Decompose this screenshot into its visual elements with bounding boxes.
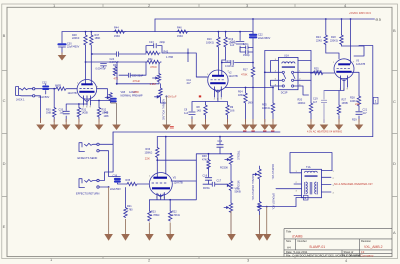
label R43 bbox=[164, 51, 173, 60]
resistor R43 bbox=[146, 51, 160, 54]
junction R05 bbox=[272, 87, 274, 89]
transformer T1A left pins bbox=[276, 173, 302, 196]
junction R17 bottom bbox=[252, 87, 254, 89]
label C11 bbox=[187, 79, 192, 85]
svg-text:12AX7B: 12AX7B bbox=[356, 63, 366, 66]
label C30 bbox=[67, 43, 80, 49]
capacitor C9 bbox=[189, 112, 195, 115]
label R23 bbox=[151, 211, 160, 217]
potentiometer RV1 bbox=[157, 74, 160, 83]
send sleeve contact circle bbox=[97, 150, 99, 152]
svg-text:1780: 1780 bbox=[127, 208, 133, 211]
svg-text:12AX7B: 12AX7B bbox=[174, 181, 184, 184]
wire C14 column bbox=[196, 137, 231, 161]
svg-text:R46: R46 bbox=[177, 27, 182, 30]
resistor R27 bbox=[337, 105, 340, 115]
wire C17 row bbox=[203, 183, 227, 185]
svg-text:A4: A4 bbox=[287, 246, 291, 250]
transformer T1A right pins bbox=[322, 171, 333, 193]
svg-text:1M8: 1M8 bbox=[104, 115, 109, 118]
tube V2 envelope bbox=[208, 70, 228, 90]
relay U1A body bbox=[278, 58, 298, 90]
resistor R23 bbox=[148, 211, 151, 221]
label V1 tube bbox=[68, 92, 78, 95]
svg-text:Revision: Revision bbox=[361, 239, 372, 243]
wire V5b plate riser bbox=[165, 137, 167, 174]
svg-text:18K0: 18K0 bbox=[238, 94, 244, 97]
zone numbers top bbox=[53, 3, 347, 8]
svg-text:1K6: 1K6 bbox=[230, 109, 235, 112]
resistor R30 bbox=[53, 108, 56, 123]
svg-text:TREBLE: TREBLE bbox=[237, 151, 240, 161]
wire treble ground drop bbox=[230, 211, 232, 234]
resistor R44 series on rail bbox=[113, 30, 126, 33]
label R05 bbox=[262, 104, 270, 110]
wire pot to ground bbox=[111, 103, 117, 125]
zone ticks left bbox=[2, 71, 7, 197]
label C33 bbox=[59, 109, 65, 115]
resistor R19 plate load V2b bbox=[222, 32, 228, 76]
ground under R8 bbox=[201, 119, 210, 130]
svg-text:C16: C16 bbox=[203, 175, 208, 178]
wire V2 grid from network bbox=[196, 76, 207, 78]
svg-text:22uF/450V: 22uF/450V bbox=[67, 46, 80, 49]
capacitor C26 small bbox=[101, 64, 107, 68]
svg-text:R44: R44 bbox=[114, 27, 119, 30]
wire jack tip to C32 bbox=[35, 88, 43, 90]
wire relay pin left coil bbox=[271, 61, 279, 73]
transformer core lines bbox=[310, 182, 312, 194]
resistor R18 bbox=[340, 35, 343, 46]
relay contact circles left bbox=[282, 71, 284, 73]
svg-text:1: 1 bbox=[375, 99, 377, 103]
label R38 bbox=[202, 155, 208, 161]
svg-text:1uF: 1uF bbox=[184, 112, 189, 115]
tube V3 pin numbers bbox=[333, 62, 355, 91]
svg-text:120KΩ: 120KΩ bbox=[314, 70, 322, 73]
junction rail R10 bbox=[218, 31, 220, 33]
ground arrow master bbox=[255, 234, 264, 241]
resistor R8 bbox=[204, 105, 207, 122]
svg-text:NORMAL MASTER VOL: NORMAL MASTER VOL bbox=[251, 174, 254, 201]
svg-text:D: D bbox=[393, 161, 396, 166]
zone ticks bottom bbox=[103, 257, 295, 259]
transformer T1A outer wires bbox=[276, 153, 332, 196]
label R32 bbox=[102, 109, 109, 115]
svg-text:22uF: 22uF bbox=[138, 75, 144, 78]
label R40 bbox=[104, 112, 109, 118]
svg-text:1M0: 1M0 bbox=[248, 102, 253, 105]
send tip contact circle bbox=[97, 143, 99, 145]
resistor R32 bbox=[97, 108, 100, 123]
label R33 bbox=[145, 148, 153, 154]
wire R22 column bbox=[169, 200, 171, 211]
effects return jack body bbox=[79, 179, 97, 188]
svg-text:Date:: Date: bbox=[286, 250, 292, 254]
svg-text:B-AMP-01: B-AMP-01 bbox=[310, 245, 326, 249]
wire plate drop V3 bbox=[350, 19, 352, 64]
tube V1 grid dashes bbox=[80, 88, 93, 90]
potentiometer bass bbox=[229, 203, 232, 233]
pot wiper arrow bbox=[153, 77, 158, 79]
junction dot network bbox=[187, 52, 189, 54]
junction R04 bbox=[245, 87, 247, 89]
svg-text:5-Apr-2011: 5-Apr-2011 bbox=[294, 250, 308, 254]
label V1B preamp block bbox=[121, 91, 143, 98]
wire V1 output to wiper bbox=[97, 89, 108, 98]
resistor R33 bbox=[156, 148, 159, 178]
svg-text:Number: Number bbox=[298, 239, 307, 243]
wire C32 to junction bbox=[46, 88, 55, 90]
label C19 bbox=[313, 98, 318, 104]
svg-text:C17: C17 bbox=[217, 180, 222, 183]
ground under volume pot bbox=[112, 125, 121, 131]
svg-text:MIDDLE: MIDDLE bbox=[237, 181, 240, 190]
svg-text:47K: 47K bbox=[114, 77, 119, 81]
label R28 bbox=[350, 97, 358, 103]
wire R31 bbox=[78, 104, 80, 108]
svg-text:JACK 1: JACK 1 bbox=[16, 99, 25, 102]
capacitor C23 bbox=[154, 44, 157, 48]
tube V5 plate bar B bbox=[152, 187, 170, 189]
wire B+ top rail bbox=[155, 18, 375, 20]
svg-text:220KΩ: 220KΩ bbox=[330, 40, 338, 43]
wire C24 row bbox=[86, 54, 148, 62]
junction R38 top bbox=[208, 153, 210, 155]
label R18 bbox=[330, 36, 338, 43]
junction dot R48 bbox=[85, 31, 87, 33]
capacitor C24 bbox=[116, 52, 118, 57]
resistor R47 plate load V1b bbox=[90, 32, 93, 85]
capacitor C32 electrolytic bbox=[43, 87, 48, 90]
svg-text:22uF/50V: 22uF/50V bbox=[110, 188, 121, 191]
junction second cathode bbox=[98, 100, 100, 102]
treble wiper arrow bbox=[225, 159, 229, 161]
svg-text:PREAMP: PREAMP bbox=[132, 95, 143, 98]
resistor R17 bbox=[251, 67, 254, 88]
svg-text:4n7: 4n7 bbox=[363, 112, 368, 115]
junction top rail plate bbox=[350, 18, 352, 20]
svg-text:186K: 186K bbox=[95, 37, 101, 40]
svg-text:File:: File: bbox=[286, 253, 291, 257]
svg-text:820p: 820p bbox=[243, 43, 249, 46]
wire relay pin right middle out bbox=[294, 71, 322, 73]
svg-text:U1A: U1A bbox=[284, 55, 289, 58]
resistor R46 series on rail bbox=[176, 30, 189, 33]
label C9 bbox=[184, 109, 189, 115]
tube V1 cathode bump bbox=[85, 99, 90, 101]
middle wiper arrow bbox=[227, 184, 229, 186]
net label box node 1 bbox=[373, 97, 378, 104]
relay switch arm left bbox=[283, 74, 286, 79]
resistor R21 bbox=[124, 208, 127, 218]
svg-text:A: A bbox=[393, 230, 396, 235]
svg-text:15K0: 15K0 bbox=[177, 35, 183, 38]
wire pot drop bbox=[158, 64, 160, 84]
junction cathode bus bbox=[169, 199, 171, 201]
zone ticks right bbox=[392, 71, 397, 197]
wire effects send run bbox=[113, 131, 280, 133]
tube V3 plate bar A bbox=[338, 63, 350, 65]
label R46 bbox=[177, 27, 183, 39]
capacitor C13 bbox=[231, 60, 233, 64]
wire relay feed bus bbox=[226, 88, 265, 123]
svg-text:B: B bbox=[3, 33, 6, 38]
tube V2 grid dashes bbox=[211, 79, 224, 81]
wire second cathode bbox=[91, 101, 112, 108]
capacitor C36 electrolytic bbox=[115, 179, 120, 182]
wire relay bus join bbox=[265, 87, 273, 89]
svg-text:1uF: 1uF bbox=[230, 44, 235, 47]
ground arrow R21 bbox=[121, 234, 130, 241]
svg-text:470uF: 470uF bbox=[133, 79, 141, 83]
resistor R28 bbox=[357, 96, 360, 106]
svg-text:47K0: 47K0 bbox=[150, 65, 157, 69]
svg-text:T1A: T1A bbox=[306, 166, 311, 169]
wire RC row bbox=[146, 46, 208, 77]
tube V5 plate bar A bbox=[153, 177, 167, 179]
tube V3 plate bar B bbox=[336, 71, 351, 73]
svg-text:12AX7B: 12AX7B bbox=[68, 92, 78, 95]
svg-text:1uF: 1uF bbox=[60, 112, 65, 115]
capacitor C16 bbox=[205, 178, 211, 181]
svg-text:220K0: 220K0 bbox=[72, 37, 80, 40]
transformer T1A secondary coil left bbox=[305, 182, 308, 194]
wire relay pin left middle bbox=[265, 71, 282, 73]
wire relay pin left lower bbox=[271, 80, 283, 86]
wire relay outer loop bbox=[265, 50, 311, 103]
label C25 bbox=[132, 75, 144, 78]
label R9 bbox=[230, 106, 235, 112]
net label box node 2 bbox=[303, 195, 308, 200]
wire jack sleeve to ground bbox=[35, 96, 41, 122]
svg-text:R43: R43 bbox=[164, 51, 169, 54]
ground under C19 bbox=[320, 119, 329, 130]
svg-text:d:\AMB: d:\AMB bbox=[292, 235, 302, 239]
ground arrow speaker bbox=[263, 234, 272, 241]
capacitor C6 820p bbox=[240, 46, 253, 49]
wire R23 ground drop bbox=[148, 223, 150, 235]
wire return sleeve bbox=[99, 186, 108, 188]
label C16 bbox=[203, 175, 208, 178]
capacitor C25 bbox=[128, 73, 130, 77]
label R27 bbox=[342, 99, 348, 105]
tube V2 pins down bbox=[215, 87, 222, 102]
transformer pin numbers bbox=[296, 171, 335, 195]
junction treble top bbox=[230, 153, 232, 155]
label R44 bbox=[114, 27, 120, 39]
svg-text:MASTER VOL: MASTER VOL bbox=[271, 164, 274, 180]
wire B+ second rail bbox=[62, 31, 253, 33]
svg-text:0.047uF: 0.047uF bbox=[225, 65, 235, 68]
relay switch arm right bbox=[293, 74, 296, 79]
svg-text:EFFECTS SEND: EFFECTS SEND bbox=[78, 156, 98, 160]
label R24 bbox=[316, 36, 322, 43]
label C32 bbox=[39, 81, 50, 99]
junction top rail R18 bbox=[341, 18, 343, 20]
svg-text:R17: R17 bbox=[243, 69, 248, 72]
wire C25 row bbox=[119, 62, 146, 75]
label V2 bbox=[229, 72, 239, 79]
normal volume wiper arrow bbox=[155, 96, 160, 98]
resistor R05 bbox=[271, 103, 274, 122]
wire R21 column bbox=[125, 188, 127, 208]
svg-text:C25: C25 bbox=[132, 75, 137, 78]
svg-text:D: D bbox=[3, 161, 6, 166]
wire R24 to screen bbox=[326, 53, 339, 59]
wire riser to top rail bbox=[154, 19, 156, 32]
wire relay pin right lower bbox=[294, 79, 311, 81]
junction long run V5b bbox=[165, 136, 167, 138]
svg-text:C: C bbox=[393, 99, 396, 104]
wire C19 column light bbox=[321, 91, 327, 123]
svg-text:VXL_AMB.2: VXL_AMB.2 bbox=[364, 245, 383, 249]
wire relay pin right coil bbox=[298, 60, 311, 62]
tube V2 plate bar B bbox=[210, 82, 225, 84]
svg-text:D:\MYDOCUMENTS\CIRCUIT DES..\V: D:\MYDOCUMENTS\CIRCUIT DES..\VOX PILE DR… bbox=[293, 253, 362, 257]
relay bottom contacts bbox=[282, 85, 284, 87]
svg-text:C32: C32 bbox=[42, 81, 47, 84]
tube V1 envelope bbox=[77, 80, 97, 100]
ground under R27 bbox=[335, 119, 344, 130]
wire V2 cathode bus bbox=[206, 102, 228, 106]
ground arrow return bbox=[104, 234, 113, 241]
wire relay bottom right pin bbox=[294, 86, 309, 95]
svg-text:NORMAL: NORMAL bbox=[121, 95, 132, 98]
potentiometer middle bbox=[229, 181, 232, 203]
junction return sleeve bbox=[108, 186, 110, 188]
label R20 bbox=[298, 99, 306, 105]
capacitor C31 electrolytic bbox=[111, 99, 116, 102]
potentiometer normal volume bbox=[159, 88, 167, 103]
label C10 bbox=[230, 41, 236, 47]
label R30 bbox=[46, 109, 51, 115]
ground under R04 bbox=[249, 119, 258, 130]
svg-text:(B.5): (B.5) bbox=[376, 17, 382, 21]
svg-text:100KΩ: 100KΩ bbox=[298, 102, 306, 105]
wire R21 ground drop bbox=[125, 219, 127, 234]
junction rail C10 bbox=[239, 31, 241, 33]
svg-text:50KB: 50KB bbox=[235, 191, 241, 194]
svg-text:1.78M: 1.78M bbox=[166, 56, 173, 59]
svg-text:180K: 180K bbox=[133, 90, 139, 94]
svg-text:C14: C14 bbox=[218, 140, 223, 143]
capacitor C14 bbox=[217, 145, 223, 148]
svg-text:1M 1uF: 1M 1uF bbox=[168, 96, 177, 99]
master lower wiper arrow bbox=[257, 206, 259, 208]
wire pot bottom bus bbox=[117, 83, 159, 85]
ground under R30 bbox=[50, 119, 59, 130]
svg-text:NORMAL VOLUME: NORMAL VOLUME bbox=[162, 99, 165, 120]
tube V5 envelope bbox=[149, 173, 172, 196]
label C22 bbox=[258, 34, 271, 41]
svg-text:+5/VDC 480V DC3: +5/VDC 480V DC3 bbox=[349, 11, 371, 15]
svg-text:100KΩ: 100KΩ bbox=[262, 107, 270, 110]
transformer T1A body bbox=[302, 169, 322, 197]
svg-text:R42: R42 bbox=[113, 64, 118, 67]
input jack J1 body bbox=[16, 87, 33, 96]
tube V5 cathode bump bbox=[158, 194, 163, 197]
resistor R24 bbox=[324, 35, 327, 53]
label R04 bbox=[238, 91, 244, 97]
title block frame bbox=[284, 229, 392, 257]
transformer T1A secondary coil right bbox=[315, 182, 318, 194]
svg-text:C23: C23 bbox=[149, 41, 154, 44]
return tip contact circle bbox=[97, 179, 99, 181]
transformer T1A primary coil bbox=[305, 171, 318, 176]
label R25 bbox=[314, 68, 322, 74]
label R17 bbox=[243, 69, 248, 72]
ground under R04 bbox=[241, 119, 250, 130]
junction top rail R24 bbox=[325, 18, 327, 20]
capacitor C22 electrolytic bbox=[250, 35, 256, 38]
svg-text:22K: 22K bbox=[355, 102, 360, 106]
svg-text:EFFECTS RETURN: EFFECTS RETURN bbox=[76, 191, 99, 195]
red ticks under ground cluster bbox=[243, 130, 274, 132]
capacitor C19 bbox=[321, 100, 327, 102]
return sleeve contact circle bbox=[97, 186, 99, 188]
potentiometer input vol bbox=[105, 93, 112, 104]
wire stub network junction bbox=[187, 49, 189, 63]
capacitor C30 bbox=[59, 43, 66, 45]
tube V2 plate bar A bbox=[212, 75, 224, 77]
wire V3 cathode bus bbox=[324, 88, 344, 123]
resistor R1 grid stopper 680R bbox=[56, 87, 77, 90]
label R41 bbox=[148, 58, 153, 61]
svg-text:100KΩ: 100KΩ bbox=[206, 42, 214, 45]
junction rail R19 bbox=[225, 31, 227, 33]
zone letters right bbox=[393, 28, 396, 235]
resistor R38 bbox=[207, 160, 210, 170]
label R31 bbox=[82, 109, 88, 115]
potentiometer master volume bbox=[258, 166, 261, 202]
wire V5 cathode bus bbox=[149, 181, 196, 200]
svg-text:R41: R41 bbox=[148, 58, 153, 61]
junction grid node bbox=[53, 88, 55, 90]
tube V1 pins down bbox=[84, 96, 91, 106]
junction C13 node bbox=[252, 62, 254, 64]
master wiper arrow bbox=[253, 173, 257, 175]
svg-text:DC3P: DC3P bbox=[281, 92, 288, 95]
tube V2 cathode bump bbox=[216, 90, 221, 92]
resistor R20 bbox=[309, 103, 312, 122]
ground under relay bbox=[261, 119, 270, 130]
wire relay ground drop bbox=[264, 88, 266, 123]
svg-text:RC5A: RC5A bbox=[203, 187, 210, 190]
wire send tip up to long run bbox=[99, 132, 113, 144]
resistor R04 bbox=[244, 88, 247, 123]
label R19 bbox=[229, 38, 237, 45]
junction relay left bbox=[264, 71, 266, 73]
wire return tip path bbox=[99, 132, 113, 181]
wire plate long run bbox=[157, 136, 372, 138]
tube V5 pins down bbox=[157, 192, 164, 200]
capacitor C7 1500p bbox=[240, 48, 253, 68]
zone ticks top bbox=[103, 4, 295, 7]
svg-text:22K0: 22K0 bbox=[316, 40, 322, 43]
label R47 bbox=[95, 34, 101, 40]
tube V1 plate bar A bbox=[81, 83, 92, 85]
wire R18 loop bbox=[342, 46, 365, 56]
svg-text:Size: Size bbox=[286, 239, 292, 243]
junction C14 riser bbox=[219, 136, 221, 138]
ground normal volume bbox=[162, 125, 171, 131]
resistor R42 bbox=[113, 67, 116, 76]
wire V3 output feed down bbox=[113, 46, 373, 137]
wire R22 ground drop bbox=[169, 223, 171, 235]
red net marker left bbox=[170, 127, 174, 129]
resistor R35 bbox=[127, 182, 149, 185]
